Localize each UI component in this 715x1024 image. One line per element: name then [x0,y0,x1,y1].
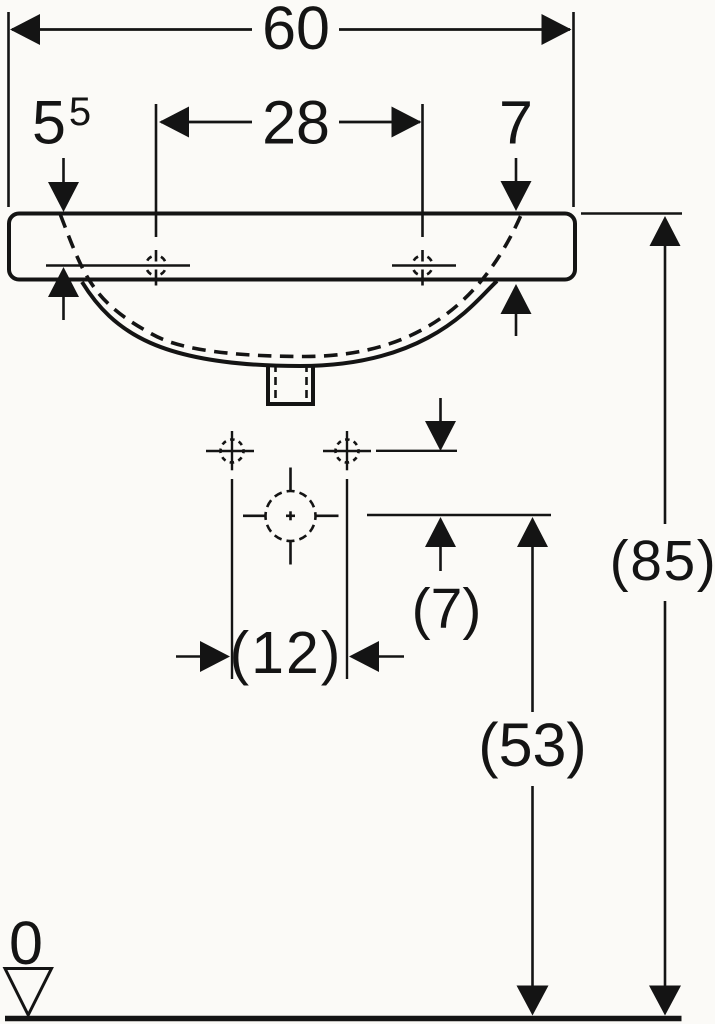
dimension 28: dimension line [161,121,420,124]
dimension (7): upper marker line [376,450,457,452]
svg-text:(53): (53) [478,711,586,779]
dimension (7): bottom arrow (up) [425,517,456,571]
datum triangle symbol [5,969,52,1016]
svg-text:5: 5 [32,89,66,157]
dimension (7): top arrow (down) [425,398,456,451]
right anchor hole crosshair [323,440,371,463]
dimension 28: right extension line [421,104,424,237]
dimension (85): lower shaft and bottom arrow [649,601,681,1016]
drain trap inner dashed lines [276,364,307,401]
basin inner rim (dashed ellipse arc) [61,214,522,357]
svg-text:7: 7 [499,89,533,157]
dimension (85): top marker line [581,212,682,214]
floor reference line [5,1016,682,1021]
dimension 5.5: top arrow (down) [48,158,79,212]
dimension (12): right arrow [349,641,404,672]
left anchor extension line [231,431,233,679]
svg-text:28: 28 [262,89,330,157]
dimension 60: right extension line [572,12,575,207]
svg-text:0: 0 [9,909,43,977]
dimension (7)/(53): lower marker line [367,514,551,516]
dimension 7: top arrow (down) [501,158,532,211]
dimension 5.5: bottom arrow (up) [48,267,79,320]
right tap hole crosshair [392,250,456,286]
right anchor extension line [346,431,348,679]
basin bowl outline (solid arc) [82,281,497,366]
svg-text:60: 60 [262,0,330,62]
dimension 60: dimension line [12,28,570,31]
svg-text:(85): (85) [610,529,715,593]
dimension (53): lower shaft and bottom arrow [517,786,549,1016]
left tap hole crosshair [46,250,190,286]
drain trap box [268,365,313,404]
dimension 60: left extension line [7,12,10,207]
dimension 60: right arrowhead [542,14,572,45]
dimension 60: left arrowhead [10,14,40,45]
svg-text:(7): (7) [412,577,482,641]
svg-text:(12): (12) [230,620,343,686]
dimension (12): left arrow [176,641,230,672]
dimension 28: right arrowhead [392,107,422,138]
dimension 28: left extension line [155,104,158,237]
svg-text:5: 5 [69,90,91,134]
left anchor hole crosshair [206,440,254,463]
dimension (53): top arrow (up) [517,517,548,712]
dimension 5.5: value label [32,89,91,157]
dimension 7: bottom arrow (up) [501,284,532,336]
dimension 28: left arrowhead [159,107,189,138]
dimension (85): top arrow (up) [650,216,681,524]
drain hole center crosshair [243,468,339,565]
washbasin rim rectangle [9,214,575,280]
